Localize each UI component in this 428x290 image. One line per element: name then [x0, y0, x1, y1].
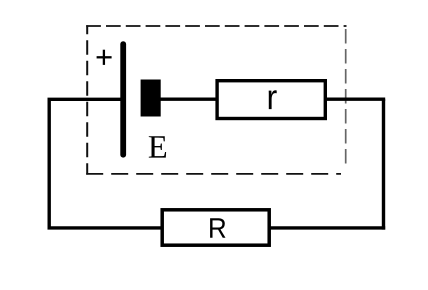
- dashed battery enclosure: left edge: [86, 25, 88, 174]
- battery negative short plate: [141, 80, 161, 117]
- wire: right rail: [382, 99, 385, 229]
- wire: bottom rail: [48, 226, 386, 229]
- dashed battery enclosure: top edge: [86, 25, 346, 27]
- battery positive long plate: [120, 44, 126, 155]
- wire: battery positive feed and left rail: [49, 99, 123, 228]
- label E (emf): [149, 136, 166, 157]
- plus sign (battery polarity): [97, 56, 112, 58]
- wire: resistor r to right rail: [326, 97, 385, 100]
- resistor R body: [162, 210, 269, 245]
- dashed battery enclosure: bottom edge: [86, 173, 341, 175]
- label R: [210, 218, 225, 238]
- resistor r body: [217, 81, 325, 119]
- wire: battery negative plate to resistor r: [158, 97, 218, 100]
- label r: [269, 90, 277, 109]
- dashed battery enclosure: right edge: [345, 29, 347, 169]
